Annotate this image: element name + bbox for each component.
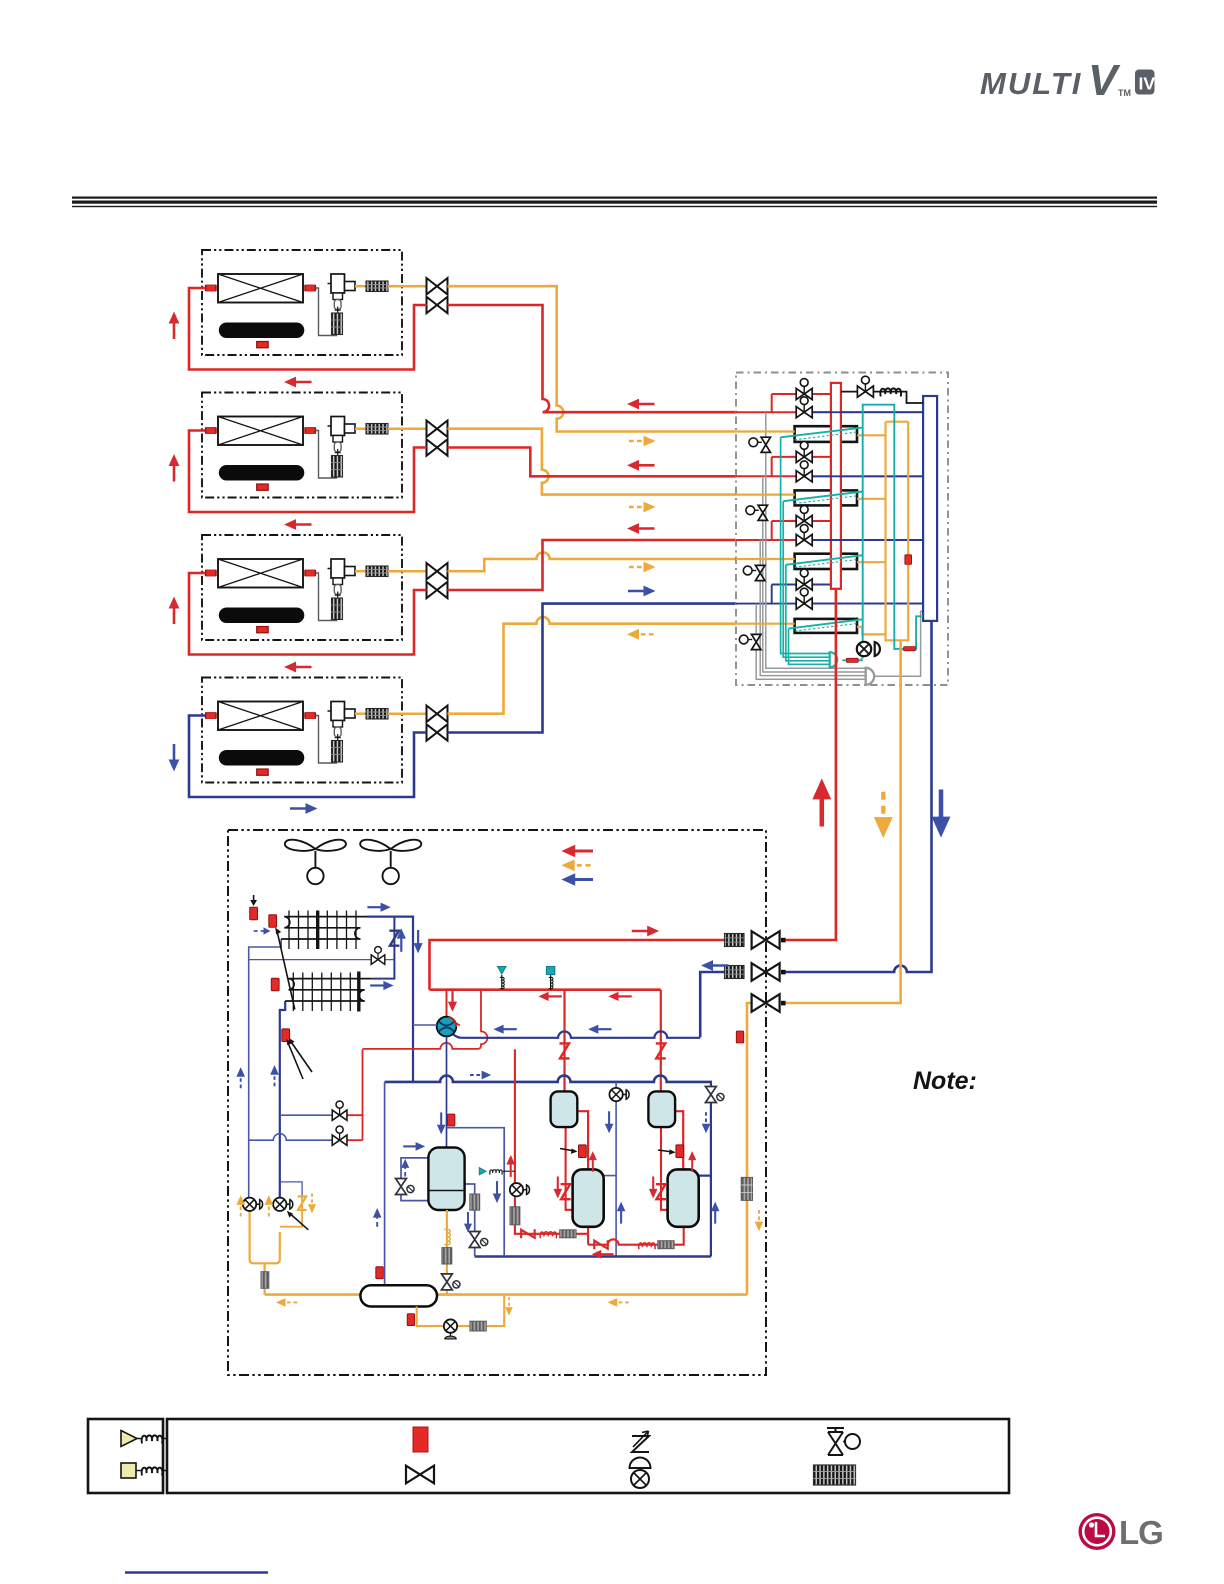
set3 red stub: [772, 521, 831, 540]
flow arrow liquid bus left 2: [608, 1298, 629, 1307]
flow arrow oil drain down: [505, 1297, 513, 1316]
flow arrow coil1 gas out: [367, 903, 390, 912]
liquid injection column: [515, 1049, 588, 1234]
sensor suction line temp: [448, 1114, 455, 1126]
bottom blue line: [125, 1571, 268, 1573]
EEV3 subcooling valve: [743, 565, 765, 580]
manifold left drop to accumulator: [384, 1082, 386, 1285]
flow arrow liquid bus left: [276, 1298, 297, 1307]
svg-text:TM: TM: [1118, 88, 1131, 98]
header to 4way: [446, 990, 448, 1017]
legend: square tube symbol: [121, 1463, 136, 1478]
bottom oil manifold: [475, 1255, 711, 1258]
4way left port: [413, 1024, 437, 1026]
solenoid valve SV4b suction: [796, 588, 812, 609]
HR sensors: [846, 658, 858, 662]
flow arrow to subcooler down: [437, 1112, 446, 1134]
unit3 liquid trunk: [448, 552, 737, 571]
flow arrow sep2 oil down: [649, 1177, 658, 1199]
flow arrow drain right up: [264, 1195, 273, 1216]
red header pipe: [831, 383, 841, 589]
fan 1: [285, 840, 346, 885]
outdoor box: [228, 830, 766, 1375]
strainer gray: subcool bottom: [442, 1248, 452, 1264]
fan 2: [360, 840, 421, 885]
oil separator 2: [648, 1091, 675, 1127]
condenser coil 1: [281, 911, 367, 950]
strainer gray: bottom drop: [261, 1272, 269, 1289]
flow arrow economizer loop up: [401, 1159, 409, 1177]
coil1 left pipe down: [249, 939, 282, 1199]
flow legend arrows: [561, 845, 593, 857]
red hot gas loop from 4way: [363, 990, 488, 1049]
strainer gray: crossover 2: [658, 1241, 674, 1249]
solenoid valve SV1a high-pressure: [796, 379, 812, 400]
unit4 liquid trunk: [448, 617, 737, 714]
injection pointer: [479, 1168, 486, 1175]
oil separator 1: [551, 1091, 578, 1127]
flow arrow oil return 2 down: [702, 1112, 711, 1133]
sensor coil1 pipe temp: [269, 915, 277, 928]
indoor unit 4: [202, 678, 448, 783]
legend: valve: [406, 1466, 434, 1484]
solenoid valve SV3b suction: [796, 525, 812, 546]
legend: strainer: [814, 1465, 856, 1485]
flow arrow comp1 discharge up: [589, 1151, 597, 1172]
flow arrow comp2 suction up: [711, 1202, 720, 1224]
left drain valves: [243, 1198, 263, 1211]
unit3 gas trunk: [448, 540, 737, 590]
oil drain sight glass: [444, 1319, 457, 1338]
unit4 gas loop pipe (cooling, blue): [189, 716, 427, 798]
flow arrow coil2 gas out: [370, 981, 393, 990]
4way down pipe: [446, 1036, 448, 1147]
accumulator oil drain: [417, 1295, 505, 1327]
suction bar: [923, 396, 937, 621]
indoor unit 3: [202, 535, 448, 640]
teal left drop lines: [781, 437, 830, 664]
riser separator 1: [563, 990, 565, 1092]
defrost stub upper: [280, 1114, 334, 1116]
flow arrow liquid riser down: [755, 1210, 764, 1231]
sep2 oil return: [661, 1127, 668, 1210]
strainer gray: subcool right: [470, 1194, 480, 1210]
unit3 up arrow: [169, 597, 180, 625]
indoor unit 1: [202, 250, 448, 355]
service valve row: red: [430, 940, 725, 990]
separator rules: [72, 197, 1157, 208]
sensor coil2 pipe temp: [271, 978, 279, 991]
set4 navy stub: [772, 585, 831, 604]
strainer gray: drain: [470, 1321, 486, 1331]
riser separator 2: [660, 990, 662, 1092]
set4 sv line: [736, 603, 923, 605]
red coils: [540, 1232, 557, 1239]
solenoid valve SV4a high-pressure: [796, 569, 812, 590]
4way valve: [437, 1017, 460, 1037]
defrost stub lower: [249, 1134, 334, 1140]
unit3 gas loop pipe: [189, 573, 427, 655]
bottom liquid bus: [265, 1293, 747, 1296]
flow arrow drain check down: [308, 1193, 316, 1213]
defrost solenoid valves: [332, 1101, 347, 1120]
strainer gray: x747: [741, 1177, 752, 1200]
flow arrow suction left 2: [588, 1025, 611, 1034]
accumulator: [360, 1285, 437, 1306]
defrost drain Z branch: [280, 1182, 302, 1196]
EEV4 subcooling valve: [739, 634, 761, 649]
compressor 2: [668, 1169, 699, 1226]
compressor 1: [573, 1169, 604, 1226]
subcool right valve: [469, 1232, 488, 1248]
teal subcool diagonals: [781, 428, 863, 629]
relief glyph 2: [550, 975, 552, 990]
flow arrow discharge header left 2: [608, 992, 631, 1001]
service valve row: liquid: [747, 1003, 752, 1295]
left yellow U: [250, 1210, 280, 1295]
sensor accumulator inlet temp: [376, 1267, 383, 1279]
suction manifold: [385, 1076, 712, 1082]
subcooler right column: [465, 1184, 475, 1257]
comp2 discharge: [675, 1111, 683, 1170]
flow arrow discharge to 4-way: [448, 988, 457, 1011]
EEV2 subcooling valve: [746, 505, 768, 520]
flow arrow into subcooler: [403, 1142, 425, 1151]
sensor coil2 outlet temp: [282, 1029, 290, 1042]
HX liquid lines out to headers: [857, 435, 886, 634]
subcool bottom valve: [442, 1274, 461, 1290]
orange liquid headers: [886, 422, 909, 685]
unit2 liquid trunk: [448, 429, 737, 495]
flow arrow coil1 return up: [236, 1067, 245, 1088]
set2 red stub: [772, 457, 831, 476]
set2 sv line: [736, 475, 796, 477]
subcooler vessel: [428, 1148, 464, 1211]
solenoid valve SV2a high-pressure: [796, 442, 812, 463]
legend: sensor: [413, 1427, 428, 1452]
teal manifold: [830, 652, 838, 667]
flow arrow oil return 1 down: [605, 1111, 614, 1133]
unit2 gas loop pipe: [189, 431, 427, 513]
sensor coil1 air temp: [250, 907, 258, 920]
oil valve 2: [706, 1087, 725, 1103]
solenoid valve SV1b suction: [796, 397, 812, 418]
flow arrow subcool gas down: [493, 1181, 502, 1203]
economizer tap line: [447, 1128, 505, 1257]
strainer gray: crossover 1: [560, 1230, 576, 1238]
red header: [430, 988, 661, 991]
oil crossover to comp2: [588, 1227, 684, 1245]
unit1 liquid trunk: [448, 286, 737, 431]
flow arrow accumulator line up: [373, 1208, 382, 1227]
sensor compressor2 discharge temp: [676, 1145, 684, 1158]
LG logo: [1079, 1513, 1163, 1551]
strainer gray: injection: [510, 1207, 520, 1225]
unit3 below arrow: [284, 662, 312, 673]
legend: service valve vertical + circle: [827, 1428, 844, 1432]
coil2 left pipe down: [280, 1001, 285, 1199]
red discharge trunk: [784, 589, 836, 940]
unit1 gas trunk: [448, 305, 737, 412]
teal right risers + bridge: [863, 405, 923, 649]
HR box: [736, 373, 948, 686]
legend: check Z with arrow: [632, 1431, 649, 1452]
unit2 up arrow: [169, 454, 180, 482]
blue pipe coil1 out: [367, 917, 413, 1082]
defrost bypass solenoid: [371, 947, 385, 965]
flow arrow coil2 riser up: [397, 928, 406, 951]
defrost red feeds: [346, 1049, 363, 1140]
svg-text:LG: LG: [1119, 1514, 1163, 1551]
coil2 riser with check: [372, 917, 395, 979]
flow arrow injection up: [506, 1155, 515, 1177]
unit4 below arrow: [290, 803, 318, 814]
sightglass teal line: [857, 642, 880, 656]
comp1 discharge: [577, 1111, 588, 1170]
flow arrow gas down: [414, 930, 423, 953]
subcool loop valve: [396, 1179, 415, 1195]
EEV1 subcooling valve: [749, 437, 771, 452]
set3 sv line: [736, 539, 796, 541]
sensor liquid line temp: [736, 1031, 743, 1043]
gray manifold out: [874, 611, 923, 676]
service valve row: suction: [700, 972, 724, 1037]
subcool loop: [401, 1158, 428, 1201]
trunk arrows: [812, 778, 831, 826]
defrost thin line: [249, 959, 395, 961]
flow arrow comp2 discharge up: [688, 1151, 696, 1172]
pointer arrows black: [253, 895, 255, 902]
comp1 bottom drop: [587, 1227, 589, 1245]
unit4 down arrow: [169, 744, 180, 772]
flow arrow oil crossover left: [592, 1250, 614, 1259]
flow arrow suction manifold dashed: [470, 1071, 491, 1080]
liquid trunk: [784, 640, 901, 1003]
MULTI V IV logo: [980, 56, 1155, 105]
HX plates: [795, 426, 857, 442]
legend box: [88, 1419, 1009, 1493]
blue dashed mini arrow: [254, 930, 264, 932]
trunk arrows: [627, 399, 655, 410]
sensor compressor1 discharge temp: [579, 1145, 587, 1158]
oil valve column 1: [604, 1082, 616, 1257]
oil valve column 2: [699, 1082, 711, 1257]
svg-text:Note:: Note:: [913, 1067, 977, 1095]
gray EEV taps and drops: [766, 412, 866, 668]
svg-text:V: V: [1088, 56, 1121, 105]
relief glyph 1: [501, 975, 503, 990]
indoor unit 2: [202, 393, 448, 498]
svg-text:IV: IV: [1139, 74, 1156, 94]
suction trunk: [784, 621, 932, 972]
sep1 oil return: [566, 1127, 573, 1210]
flow arrow suction left 1: [493, 1025, 516, 1034]
unit4 gas trunk: [448, 604, 737, 733]
flow arrow sep1 oil down: [553, 1177, 562, 1199]
check valves blue/red: [389, 931, 399, 946]
gray manifold: [866, 668, 874, 685]
flow arrow drain left up: [236, 1195, 245, 1216]
legend: field tube symbol: [121, 1431, 137, 1447]
unit2 gas trunk: [448, 448, 737, 477]
4way suction line right: [453, 1031, 700, 1037]
subcooler bottom liquid line: [446, 1210, 448, 1295]
legend: dome + circleX: [630, 1458, 651, 1469]
solenoid valve SV2b suction: [796, 461, 812, 482]
flow arrow coil2 return up: [270, 1065, 279, 1086]
flow arrow discharge header left 1: [538, 992, 561, 1001]
unit1 gas loop pipe: [189, 288, 427, 370]
set1 sv line to suction bar: [736, 411, 796, 413]
flow arrow subcool right down: [464, 1212, 472, 1233]
injection valve: [510, 1183, 530, 1196]
oil solenoid 1: [609, 1088, 629, 1101]
set1 red stub: [772, 394, 831, 412]
black bypass line: [841, 392, 923, 403]
solenoid valve SV3a high-pressure: [796, 506, 812, 527]
HX liquid lines in: [736, 432, 795, 624]
unit1 below arrow: [284, 377, 312, 388]
unit1 up arrow: [169, 312, 180, 340]
unit2 below arrow: [284, 519, 312, 530]
flow arrow comp1 suction up: [617, 1202, 626, 1224]
svg-text:MULTI: MULTI: [980, 66, 1082, 101]
sensor oil drain temp: [407, 1314, 414, 1326]
condenser coil 2: [285, 972, 372, 1012]
